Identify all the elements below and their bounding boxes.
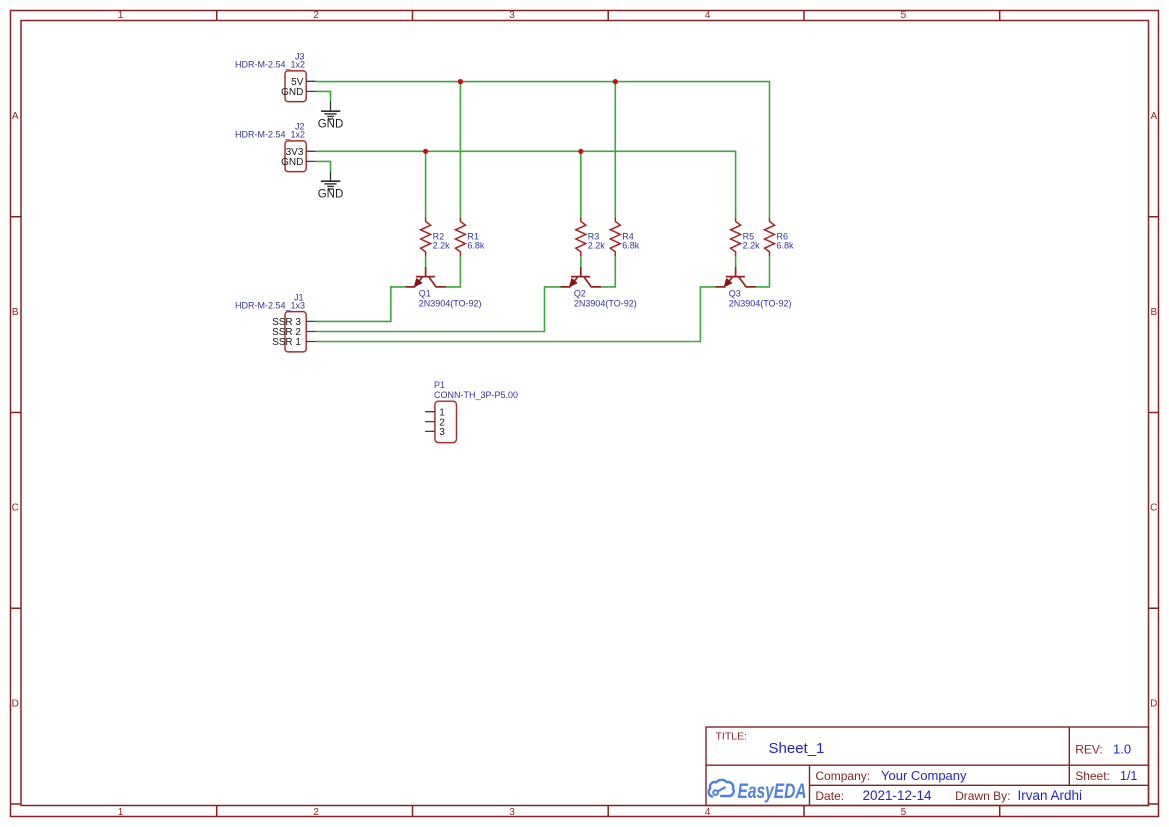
- connector J2 body: [285, 141, 306, 172]
- wire Q1 emitter to SSR 3: [316, 287, 406, 322]
- connector J3 body: [285, 71, 306, 102]
- EasyEDA logo: [709, 780, 807, 803]
- ground arc: [328, 118, 333, 119]
- resistor R4 body: [610, 217, 620, 256]
- svg-text:GND: GND: [281, 87, 303, 98]
- junction on 5V at R4: [613, 79, 618, 84]
- svg-text:REV:: REV:: [1075, 742, 1103, 756]
- resistor R1 6.8k: [455, 217, 485, 256]
- svg-text:GND: GND: [318, 118, 344, 130]
- svg-text:3: 3: [509, 10, 515, 21]
- transistor Q2 emitter and collector leads: [561, 277, 602, 287]
- svg-text:A: A: [1150, 111, 1157, 122]
- wire J3 GND to ground: [316, 91, 331, 101]
- svg-text:1/1: 1/1: [1120, 769, 1137, 783]
- svg-text:Drawn By:: Drawn By:: [955, 789, 1010, 803]
- transistor Q2 base bar: [571, 276, 590, 278]
- wire R3 to Q2 base: [580, 256, 582, 267]
- svg-text:Sheet:: Sheet:: [1075, 769, 1110, 783]
- ground bar 3: [327, 185, 334, 187]
- resistor R1 body: [455, 217, 465, 256]
- resistor R2 2.2k: [421, 217, 451, 256]
- connector P1 body: [435, 401, 457, 442]
- svg-text:1.0: 1.0: [1113, 741, 1131, 756]
- wire R6 to Q3 collector: [756, 256, 770, 287]
- wire Q3 emitter to SSR 1: [316, 287, 716, 342]
- svg-text:6.8k: 6.8k: [622, 241, 640, 251]
- svg-text:2.2k: 2.2k: [433, 241, 451, 251]
- ground arc: [328, 188, 333, 189]
- svg-text:6.8k: 6.8k: [777, 241, 795, 251]
- junction on 5V at R1: [458, 79, 463, 84]
- svg-text:Your Company: Your Company: [881, 768, 967, 783]
- svg-text:Company:: Company:: [815, 769, 870, 783]
- connector P1: [425, 380, 518, 443]
- resistor R5 2.2k: [731, 217, 761, 256]
- svg-text:CONN-TH_3P-P5.00: CONN-TH_3P-P5.00: [434, 390, 518, 400]
- svg-text:2.2k: 2.2k: [588, 241, 606, 251]
- wire R2 to Q1 base: [425, 256, 427, 267]
- resistor R6 6.8k: [765, 217, 795, 256]
- svg-text:HDR-M-2.54_1x3: HDR-M-2.54_1x3: [235, 300, 305, 310]
- transistor Q3 emitter arrow: [725, 279, 732, 286]
- svg-text:5: 5: [901, 10, 907, 21]
- ground bar 2: [324, 183, 336, 185]
- svg-text:1: 1: [118, 807, 124, 818]
- resistor R3 body: [576, 217, 586, 256]
- ground bar 1: [321, 110, 340, 112]
- svg-text:Date:: Date:: [815, 789, 844, 803]
- ground bar 2: [324, 113, 336, 115]
- svg-text:Q2: Q2: [574, 289, 586, 299]
- svg-text:C: C: [1150, 503, 1157, 514]
- svg-text:2N3904(TO-92): 2N3904(TO-92): [419, 298, 482, 308]
- wire R1 to Q1 collector: [446, 256, 460, 287]
- transistor Q1 emitter arrow: [415, 279, 422, 286]
- connector J3 pin stubs: [306, 81, 315, 91]
- connector J2 pin stubs: [306, 151, 315, 161]
- transistor Q2 base lead: [580, 267, 582, 277]
- svg-text:Q3: Q3: [729, 289, 741, 299]
- wire Q2 emitter to SSR 2: [316, 287, 561, 332]
- transistor Q3 emitter and collector leads: [715, 277, 756, 287]
- transistor Q1 base lead: [425, 267, 427, 277]
- connector P1 pin stubs: [425, 412, 435, 432]
- svg-text:C: C: [12, 503, 19, 514]
- svg-text:3: 3: [509, 807, 515, 818]
- svg-text:2: 2: [313, 10, 319, 21]
- svg-text:GND: GND: [281, 157, 303, 168]
- svg-text:Q1: Q1: [419, 289, 431, 299]
- svg-text:Sheet_1: Sheet_1: [769, 740, 825, 757]
- resistor R3 2.2k: [576, 217, 606, 256]
- svg-text:5: 5: [901, 807, 907, 818]
- transistor Q1 base bar: [416, 276, 435, 278]
- svg-text:TITLE:: TITLE:: [716, 730, 748, 742]
- connector J1: [235, 292, 316, 352]
- svg-text:B: B: [1150, 307, 1157, 318]
- connector J2: [235, 121, 316, 171]
- junction on 3V3 at R3: [578, 149, 583, 154]
- title block: [706, 727, 1149, 806]
- transistor Q2 emitter arrow: [570, 279, 577, 286]
- svg-text:2N3904(TO-92): 2N3904(TO-92): [574, 298, 637, 308]
- svg-text:2N3904(TO-92): 2N3904(TO-92): [729, 298, 792, 308]
- svg-text:3: 3: [439, 427, 445, 438]
- junction on 3V3 at R2: [423, 149, 428, 154]
- wire R4 to Q2 collector: [601, 256, 615, 287]
- svg-text:2.2k: 2.2k: [743, 241, 761, 251]
- ground bar 1: [321, 180, 340, 182]
- wire R1 drop from 5V: [459, 82, 461, 218]
- wire R5 to Q3 base: [735, 256, 737, 267]
- connector J1 pin stubs: [306, 321, 315, 341]
- svg-text:B: B: [12, 307, 19, 318]
- wire R3 drop from 3V3: [580, 151, 582, 217]
- svg-text:GND: GND: [318, 188, 344, 200]
- wire R4 drop from 5V: [614, 82, 616, 218]
- resistor R5 body: [731, 217, 741, 256]
- wire R2 drop from 3V3: [425, 151, 427, 217]
- wire 5V rail: [316, 82, 770, 218]
- svg-text:SSR 1: SSR 1: [272, 337, 301, 348]
- transistor Q1: [405, 267, 481, 308]
- transistor Q3: [715, 267, 791, 308]
- svg-text:D: D: [12, 698, 19, 709]
- transistor Q1 emitter and collector leads: [405, 277, 446, 287]
- svg-text:HDR-M-2.54_1x2: HDR-M-2.54_1x2: [235, 59, 305, 69]
- svg-text:EasyEDA: EasyEDA: [738, 780, 807, 803]
- transistor Q3 base lead: [735, 267, 737, 277]
- svg-text:HDR-M-2.54_1x2: HDR-M-2.54_1x2: [235, 129, 305, 139]
- svg-text:6.8k: 6.8k: [467, 241, 485, 251]
- svg-text:2021-12-14: 2021-12-14: [863, 788, 933, 803]
- svg-text:P1: P1: [434, 380, 445, 390]
- svg-text:D: D: [1150, 698, 1157, 709]
- wire 3V3 rail: [316, 151, 736, 217]
- resistor R2 body: [421, 217, 431, 256]
- svg-text:A: A: [12, 111, 19, 122]
- resistor R4 6.8k: [610, 217, 640, 256]
- ground pin line: [330, 172, 332, 182]
- svg-text:1: 1: [118, 10, 124, 21]
- wire J2 GND to ground: [316, 161, 331, 171]
- svg-text:4: 4: [705, 10, 711, 21]
- connector J3: [235, 51, 316, 101]
- ground GND (J2): [318, 172, 344, 201]
- ground GND (J3): [318, 102, 344, 131]
- ground bar 3: [327, 115, 334, 117]
- transistor Q3 base bar: [726, 276, 745, 278]
- svg-text:Irvan Ardhi: Irvan Ardhi: [1018, 788, 1083, 803]
- transistor Q2: [561, 267, 637, 308]
- svg-text:4: 4: [705, 807, 711, 818]
- connector J1 body: [285, 312, 306, 352]
- resistor R6 body: [765, 217, 775, 256]
- ground pin line: [330, 102, 332, 112]
- svg-text:2: 2: [313, 807, 319, 818]
